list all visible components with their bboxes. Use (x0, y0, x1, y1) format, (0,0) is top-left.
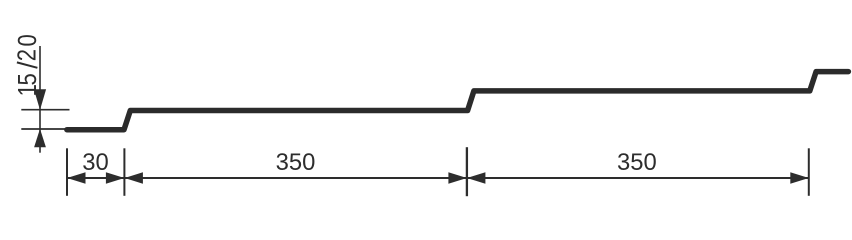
svg-text:350: 350 (276, 149, 316, 176)
extension line at x=808.8 (808, 148, 810, 196)
svg-text:0: 0 (14, 34, 43, 46)
extension line at x=67 (66, 148, 68, 196)
panel profile outline (67, 72, 849, 130)
label 15/20 (rotated) (13, 34, 43, 96)
svg-text:2: 2 (13, 49, 42, 61)
extension tick lower (level of bottom flat) (21, 128, 67, 130)
svg-text:350: 350 (617, 149, 657, 176)
horizontal dimension line (67, 177, 809, 179)
arrow right at x=466.9 (dim 350 #1) (448, 172, 467, 183)
arrow left at x=67 (67, 172, 86, 183)
arrow left at x=466.9 (dim 350 #2) (467, 172, 486, 183)
svg-text:5: 5 (13, 73, 42, 85)
arrow right at x=808.8 (dim 350 #2) (790, 172, 809, 183)
extension line at x=124.4 (123, 148, 125, 196)
vertical dimension line 15/20 (39, 46, 41, 153)
arrow down to upper tick (34, 89, 46, 110)
extension tick upper (level of first flat) (21, 109, 69, 111)
arrow left at x=124.4 (dim 350 #1) (124, 172, 142, 183)
arrow up to lower tick (34, 129, 46, 147)
svg-text:30: 30 (82, 149, 108, 176)
extension line at x=466.9 (466, 147, 468, 196)
arrow right at x=124.4 (dim 30) (106, 172, 125, 183)
